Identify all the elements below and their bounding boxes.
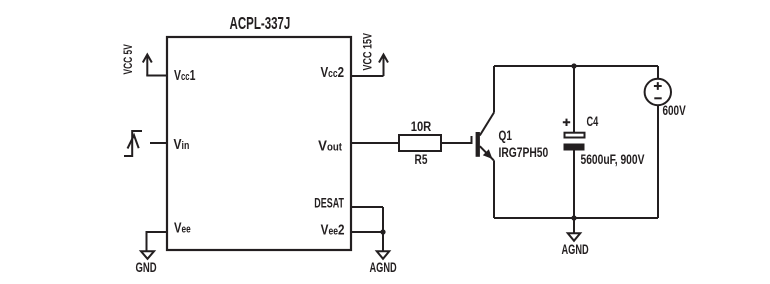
polarity plus of C4 [563,119,570,126]
svg-text:R5: R5 [415,151,428,167]
svg-text:GND: GND [136,259,157,275]
svg-text:VCC 15V: VCC 15V [361,33,375,70]
label 10R [411,119,432,134]
wire right vertical bottom [657,105,659,218]
power arrow VCC 5V [143,55,152,76]
resistor R5 [399,135,441,151]
capacitor C4 [564,133,585,151]
wire Vout to R5 [351,142,399,144]
power arrow VCC 15V [379,55,388,77]
pin label DESAT [314,196,344,211]
pin label Vout [318,137,342,154]
junction bottom rail / C4 [571,215,576,220]
label 600V [663,102,686,118]
label AGND left [370,259,398,276]
wire Vee2 stub [351,231,383,233]
svg-text:10R: 10R [411,119,432,134]
pin label Vcc1 [174,66,195,83]
wire DESAT stub [351,206,383,208]
voltage source 600V [645,79,671,105]
label R5 [415,151,428,167]
label VCC 5V [123,44,136,74]
ground AGND left [377,251,389,258]
wire Vin stub [150,142,167,144]
wire right vertical top [657,66,659,79]
label AGND right [562,241,590,258]
pin label Vee [174,219,191,236]
pin label Vin [174,136,190,153]
label VCC15V [361,33,375,70]
wire Vee to ground [147,232,168,251]
label 5600uF, 900V [581,151,646,167]
junction top rail / C4 [571,63,576,68]
wire Vcc1 stub [146,75,167,77]
svg-text:5600uF, 900V: 5600uF, 900V [581,151,646,167]
label IRG7PH50 [499,144,549,160]
svg-text:AGND: AGND [562,241,590,258]
wire bottom rail [494,217,658,219]
wire collector up [493,66,495,113]
svg-text:VCC 5V: VCC 5V [123,44,136,74]
wire R5 to gate [441,142,472,144]
wire top rail to C4 [573,66,575,132]
svg-text:Q1: Q1 [499,127,513,143]
svg-text:IRG7PH50: IRG7PH50 [499,144,549,160]
svg-text:ACPL-337J: ACPL-337J [230,14,291,34]
ground GND [141,251,154,258]
label GND [136,259,157,275]
label Q1 [499,127,513,143]
pin label Vee2 [321,221,345,238]
svg-text:DESAT: DESAT [314,196,344,211]
svg-text:600V: 600V [663,102,686,118]
wire Vcc2 stub [351,75,384,77]
ground AGND right [568,233,580,241]
svg-text:AGND: AGND [370,259,398,276]
wire bottom rail to AGND [573,218,575,233]
svg-text:C4: C4 [587,113,599,130]
wire top rail [494,65,658,67]
label ACPL-337J [230,14,291,34]
junction Vee2 / DESAT [380,229,385,234]
IC U1 body ACPL-337J [167,37,351,250]
transistor Q1 IGBT [472,113,495,161]
wire C4 to bottom rail [573,151,575,219]
wire DESAT down to ground [382,207,384,251]
pin label Vcc2 [320,64,344,81]
label C4 [587,113,599,130]
wire emitter down [493,160,495,218]
pulse input symbol [124,131,142,156]
